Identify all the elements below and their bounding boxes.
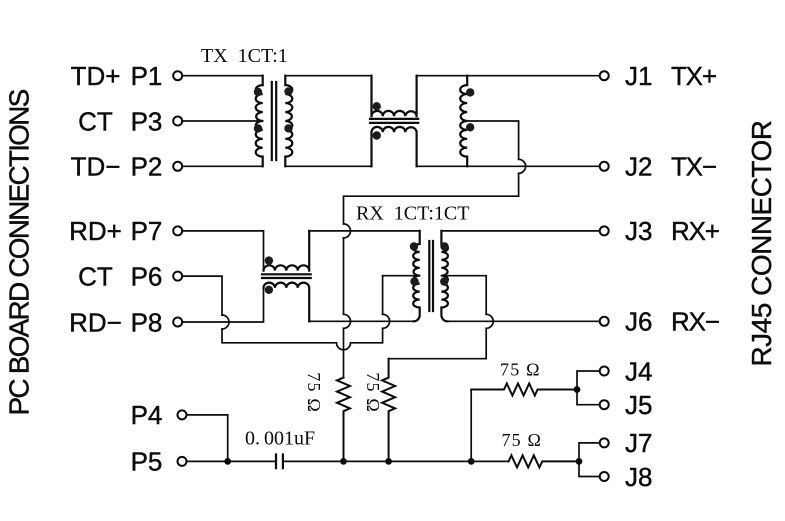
svg-text:75 Ω: 75 Ω xyxy=(304,372,324,413)
wire hop: node A riser over J2 line xyxy=(519,159,526,173)
choke L2 bottom winding xyxy=(264,283,310,322)
svg-text:RX+: RX+ xyxy=(671,216,719,246)
wire R3 left lead down to rail xyxy=(470,390,472,462)
autotransformer L3 winding xyxy=(460,76,467,167)
wire P2 to T1 primary bottom xyxy=(182,165,263,167)
svg-text:P3: P3 xyxy=(131,106,163,136)
polarity dot T1 primary middle xyxy=(254,124,262,132)
wire L3 center tap to node A riser (hops over J2 line) xyxy=(344,121,519,378)
polarity dot L2 bottom xyxy=(265,286,273,294)
wire T2 right winding top to J3 xyxy=(441,230,599,232)
polarity dot L1 bottom xyxy=(373,131,381,139)
transformer T2 left winding xyxy=(413,231,420,321)
transformer T1 primary winding xyxy=(256,76,263,167)
svg-text:P5: P5 xyxy=(131,447,163,477)
polarity dot T2 left middle xyxy=(410,277,418,285)
choke L2 top winding xyxy=(264,231,310,271)
wire T2 left center tap xyxy=(383,275,420,277)
svg-text:TX−: TX− xyxy=(671,152,716,182)
node: R2 to rail junction xyxy=(385,458,392,465)
wire J4 stub xyxy=(577,371,600,390)
svg-text:P8: P8 xyxy=(131,307,163,337)
terminal J8 xyxy=(600,472,609,481)
wire T2 right center tap to R2 (hops over J6 line) xyxy=(389,276,487,359)
svg-text:TX+: TX+ xyxy=(671,61,716,91)
svg-text:P7: P7 xyxy=(131,216,163,246)
svg-text:RJ45 CONNECTOR: RJ45 CONNECTOR xyxy=(746,120,777,366)
resistor R2 75 ohm (RX tap) xyxy=(382,359,395,462)
wire P1 to T1 primary top xyxy=(182,75,263,77)
svg-text:P1: P1 xyxy=(131,61,163,91)
wire choke L1 bottom-right to J2 (autotransformer tap riser hops over) xyxy=(417,165,600,167)
wire hop: node A riser over RX primary bottom line xyxy=(344,314,351,328)
resistor R3 75 ohm (J4/J5) xyxy=(471,384,577,396)
wire hop: node A riser over J3 line xyxy=(344,224,351,238)
wire T2 right winding bottom to J6 xyxy=(447,320,599,322)
terminal J6 xyxy=(600,317,609,326)
polarity dot T1 primary top xyxy=(254,88,262,96)
svg-text:J5: J5 xyxy=(625,390,652,420)
terminal J7 xyxy=(600,438,609,447)
wire P4 down to P5 rail xyxy=(187,415,228,462)
wire: common termination rail (cap to R4) xyxy=(283,460,509,462)
terminal P3 xyxy=(173,117,182,126)
resistor R4 75 ohm (J7/J8) xyxy=(509,455,579,467)
choke L1 core xyxy=(370,119,418,123)
choke L1 top winding xyxy=(372,76,417,117)
wire J8 stub xyxy=(579,461,600,476)
svg-text:75 Ω: 75 Ω xyxy=(500,360,541,380)
svg-text:RX−: RX− xyxy=(671,307,719,337)
svg-text:J4: J4 xyxy=(625,356,652,386)
resistor R1 75 ohm (TX tap) xyxy=(337,378,350,462)
terminal J5 xyxy=(600,400,609,409)
wire T1 secondary bottom to choke L1 bottom-left xyxy=(285,165,371,167)
terminal P8 xyxy=(173,318,182,327)
wire choke L1 top-right to J1 xyxy=(417,75,600,77)
polarity dot T2 left top xyxy=(410,242,418,250)
polarity dot T2 right top xyxy=(440,242,448,250)
transformer T2 right winding xyxy=(441,231,448,321)
node: J7/J8 junction xyxy=(576,458,583,465)
terminal P2 xyxy=(173,162,182,171)
wire T1 secondary top to choke L1 top-left xyxy=(285,75,371,77)
svg-text:75 Ω: 75 Ω xyxy=(363,372,383,413)
svg-text:J1: J1 xyxy=(625,61,652,91)
svg-text:RX 1CT:1CT: RX 1CT:1CT xyxy=(356,203,469,225)
terminal P1 xyxy=(173,71,182,80)
wire hop: T2 right tap riser over J6 line xyxy=(486,314,493,328)
svg-text:RD+: RD+ xyxy=(69,216,122,246)
polarity dot L1 top xyxy=(373,102,381,110)
svg-text:J7: J7 xyxy=(625,428,652,458)
polarity dot L2 top xyxy=(265,256,273,264)
wire hop: P6 riser over P8 line xyxy=(222,315,229,329)
polarity dot T1 secondary top xyxy=(284,87,292,95)
wire hop: P6 riser over RX primary bottom line xyxy=(383,314,390,328)
svg-text:CT: CT xyxy=(78,106,113,136)
svg-text:CT: CT xyxy=(78,261,113,291)
node: J4/J5 junction xyxy=(574,386,581,393)
svg-text:J8: J8 xyxy=(625,462,652,492)
svg-text:0.001uF: 0.001uF xyxy=(245,428,315,450)
svg-text:75 Ω: 75 Ω xyxy=(501,430,542,450)
terminal J2 xyxy=(600,162,609,171)
terminal P4 xyxy=(178,410,187,419)
wire choke L2 top-right to T2 primary top (J3 net left segment) xyxy=(309,230,420,232)
terminal J1 xyxy=(600,71,609,80)
wire P6 to T2 left center tap (hops over P8 line, under node A riser, hops over RX primary bottom line) xyxy=(182,276,382,350)
wire P8 to choke L2 bottom-left xyxy=(182,288,263,322)
wire J5 stub xyxy=(577,390,600,405)
terminal P5 xyxy=(178,457,187,466)
terminal J3 xyxy=(600,226,609,235)
choke L2 core xyxy=(262,274,311,278)
node: R1 to rail junction xyxy=(340,458,347,465)
transformer T1 core xyxy=(272,82,276,160)
polarity dot L3 middle xyxy=(466,123,474,131)
polarity dot T1 secondary middle xyxy=(284,124,292,132)
wire P7 to choke L2 top-left xyxy=(182,231,263,271)
wire P5 to capacitor C1 xyxy=(187,460,277,462)
svg-text:J3: J3 xyxy=(625,216,652,246)
transformer T2 core xyxy=(429,241,433,311)
polarity dot T2 right middle xyxy=(440,277,448,285)
svg-text:TX 1CT:1: TX 1CT:1 xyxy=(201,45,288,67)
wire P3 to T1 primary center tap xyxy=(182,120,263,122)
terminal P7 xyxy=(173,226,182,235)
svg-text:P6: P6 xyxy=(131,261,163,291)
svg-text:J2: J2 xyxy=(625,152,652,182)
terminal J4 xyxy=(600,367,609,376)
choke L1 bottom winding xyxy=(372,127,417,166)
svg-text:RD−: RD− xyxy=(69,307,122,337)
capacitor C1 0.001uF xyxy=(276,455,283,469)
terminal P6 xyxy=(173,272,182,281)
svg-text:TD+: TD+ xyxy=(71,61,121,91)
wire choke L2 bottom-right to T2 primary bottom xyxy=(309,320,414,322)
svg-text:TD−: TD− xyxy=(71,152,121,182)
svg-text:J6: J6 xyxy=(625,307,652,337)
wire J7 stub xyxy=(579,443,600,462)
node: R3 to rail junction xyxy=(468,458,475,465)
svg-text:P2: P2 xyxy=(131,152,163,182)
transformer T1 secondary winding xyxy=(285,76,292,167)
polarity dot L3 top xyxy=(466,88,474,96)
svg-text:PC BOARD CONNECTIONS: PC BOARD CONNECTIONS xyxy=(4,89,35,415)
svg-text:P4: P4 xyxy=(131,400,163,430)
node: P4/P5 junction xyxy=(224,458,231,465)
